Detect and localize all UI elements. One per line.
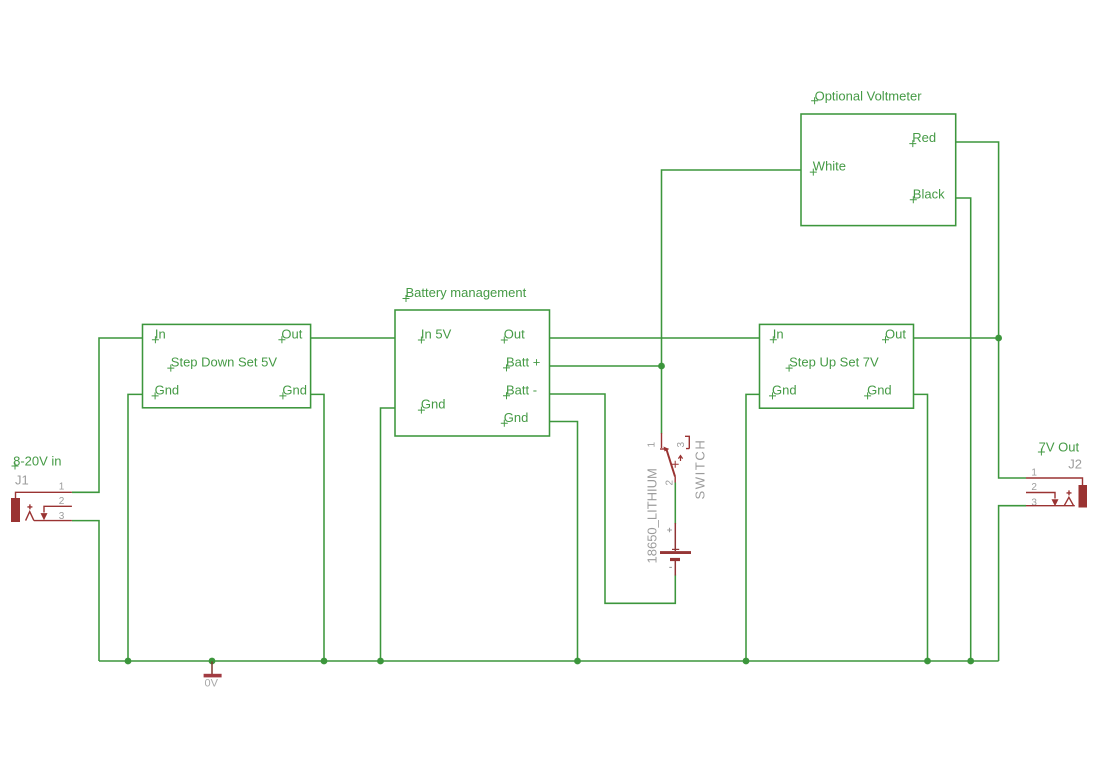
wire: node OUT to J2 pin 1 [999, 338, 1026, 478]
svg-text:2: 2 [59, 496, 65, 507]
svg-text:2: 2 [1031, 482, 1037, 493]
connector J1 body rectangle [11, 498, 20, 522]
svg-text:Out: Out [504, 327, 525, 342]
origin cross: In 5V [418, 337, 425, 344]
connector J1 plus mark [27, 504, 32, 509]
origin cross: Black [910, 196, 917, 203]
switch lever [667, 450, 676, 477]
ground 0V pin stub [211, 662, 213, 675]
junction bus / Battery management Gnd left [377, 658, 384, 665]
module box: Step Up Set 7V U$3 [760, 324, 914, 408]
switch origin cross [672, 461, 679, 468]
svg-text:2: 2 [665, 480, 676, 486]
origin cross: Out (battery management) [501, 337, 508, 344]
svg-text:Battery management: Battery management [406, 285, 527, 300]
wire: Battery management Out to Step Up In [550, 337, 761, 339]
origin cross: Step Up Set 7V [786, 365, 793, 372]
wire: GND bus [99, 660, 999, 662]
svg-text:In 5V: In 5V [421, 327, 452, 342]
module box: Optional Voltmeter U$4 [801, 114, 956, 226]
svg-text:Gnd: Gnd [282, 382, 307, 397]
svg-text:Optional Voltmeter: Optional Voltmeter [815, 89, 923, 104]
switch pin 2 line [674, 477, 676, 483]
module box: Step Down Set 5V U$1 [143, 324, 311, 407]
connector J2 body rectangle [1079, 485, 1088, 508]
connector J2 plus mark [1067, 490, 1072, 495]
battery plus plate tick [672, 548, 679, 550]
svg-text:Batt -: Batt - [506, 382, 537, 397]
svg-text:Batt +: Batt + [506, 354, 540, 369]
svg-text:3: 3 [1031, 497, 1037, 508]
origin cross: 8-20V in [12, 463, 19, 470]
junction bus / Step Up Gnd right [924, 658, 931, 665]
switch pin 3 stub [685, 436, 689, 448]
svg-text:1: 1 [1031, 468, 1037, 479]
connector J1 pin 2 arrow [41, 513, 48, 520]
switch pivot contact [664, 447, 670, 452]
wire: bus to J2 pin 3 [999, 506, 1026, 661]
origin cross: Out (step down) [278, 336, 285, 343]
connector J1 pin 2 line [44, 506, 72, 512]
wire: Step Down Gnd left to bus [128, 394, 143, 661]
svg-text:Gnd: Gnd [772, 382, 797, 397]
wire: battery minus to Battery management Batt- [550, 394, 676, 603]
switch actuator arrow [678, 456, 682, 461]
svg-text:1: 1 [647, 442, 658, 448]
junction bus / Voltmeter Black [967, 658, 974, 665]
connector J2 caret [1064, 497, 1073, 505]
junction node OUT [995, 335, 1002, 342]
ground 0V bar [204, 674, 222, 678]
wire: node BATT+ to switch pin 1 [661, 366, 663, 434]
origin cross: Batt + [503, 364, 510, 371]
battery BAT1 pin 2 stub [674, 561, 676, 576]
junction bus / Step Down Gnd left [125, 658, 132, 665]
origin cross: Red [909, 140, 916, 147]
battery BAT1 pin 1 stub [674, 523, 676, 551]
wire: Step Up Gnd left to bus [746, 394, 760, 661]
origin cross: Step Down Set 5V [167, 365, 174, 372]
origin cross: In (step down) [152, 336, 159, 343]
connector J1 pin 1 line [16, 492, 72, 498]
svg-text:Step Up Set 7V: Step Up Set 7V [789, 355, 879, 370]
battery minus polarity mark [669, 566, 672, 568]
origin cross: Gnd (step down left) [152, 392, 159, 399]
svg-text:White: White [813, 159, 846, 174]
junction bus / 0V ground [209, 658, 216, 665]
junction bus / Step Down Gnd right [321, 658, 328, 665]
svg-text:In: In [773, 326, 784, 341]
wire: Battery management Batt+ to node BATT+ [550, 365, 662, 367]
svg-text:Gnd: Gnd [504, 410, 529, 425]
svg-text:J1: J1 [15, 472, 29, 487]
wire: Step Down Gnd right to bus [311, 394, 324, 661]
wire: Step Down Out to Battery management In 5V [311, 337, 395, 339]
wire: J1 pin3 to bus [72, 521, 99, 661]
origin cross: Gnd (step up right) [864, 392, 871, 399]
svg-text:SWITCH: SWITCH [693, 439, 708, 500]
switch pin 1 contact tick [660, 448, 669, 450]
wire: Battery management Gnd left to bus [381, 408, 396, 661]
origin cross: Battery management [403, 295, 410, 302]
origin cross: Batt - [503, 392, 510, 399]
junction node BATT+ [658, 363, 665, 370]
svg-text:Out: Out [281, 326, 302, 341]
origin cross: Gnd (battery management right) [501, 420, 508, 427]
wire: Step Up Gnd right to bus [914, 394, 928, 661]
svg-text:Gnd: Gnd [421, 397, 446, 412]
connector J2 pin 3 line [1026, 505, 1075, 507]
origin cross: Gnd (step up left) [769, 392, 776, 399]
wire: Voltmeter Black to bus [956, 198, 971, 661]
wire: Voltmeter White to node BATT+ [662, 170, 802, 366]
junction bus / Step Up Gnd left [743, 658, 750, 665]
svg-text:Step Down Set 5V: Step Down Set 5V [171, 355, 278, 370]
svg-text:8-20V in: 8-20V in [13, 454, 61, 469]
switch pin 1 line [661, 433, 663, 448]
wire: switch pin 2 to battery plus [674, 483, 676, 525]
origin cross: White [810, 169, 817, 176]
svg-text:J2: J2 [1068, 456, 1082, 471]
battery bottom plate [670, 558, 680, 561]
wire: Step Up Out to node OUT [914, 337, 999, 339]
connector J1 caret [26, 512, 34, 521]
svg-text:3: 3 [676, 442, 687, 448]
origin cross: Out (step up) [882, 336, 889, 343]
junction bus / Battery management Gnd right [574, 658, 581, 665]
module box: Battery management U$2 [395, 310, 550, 436]
svg-text:Black: Black [913, 186, 945, 201]
connector J2 pin 2 arrow [1052, 499, 1059, 506]
origin cross: Gnd (step down right) [279, 392, 286, 399]
svg-text:1: 1 [59, 481, 65, 492]
svg-text:Gnd: Gnd [155, 382, 180, 397]
connector J1 pin 3 line [34, 520, 72, 522]
wire: Battery management Gnd right to bus [550, 422, 578, 662]
svg-text:Out: Out [885, 326, 906, 341]
origin cross: In (step up) [770, 336, 777, 343]
svg-text:Red: Red [912, 130, 936, 145]
connector J2 pin 1 line [1026, 478, 1083, 485]
battery top plate [660, 551, 691, 554]
origin cross: 7V Out [1038, 449, 1045, 456]
origin cross: Optional Voltmeter [811, 97, 818, 104]
origin cross: Gnd (battery management left) [418, 407, 425, 414]
svg-text:0V: 0V [205, 678, 219, 690]
svg-text:18650_LITHIUM: 18650_LITHIUM [645, 468, 660, 563]
wire: Voltmeter Red to node OUT [956, 142, 999, 338]
svg-text:Gnd: Gnd [867, 382, 892, 397]
connector J2 pin 2 line [1026, 493, 1055, 499]
battery plus polarity mark [667, 528, 672, 533]
wire: J1 pin1 to Step Down In [72, 338, 143, 492]
svg-text:In: In [155, 326, 166, 341]
